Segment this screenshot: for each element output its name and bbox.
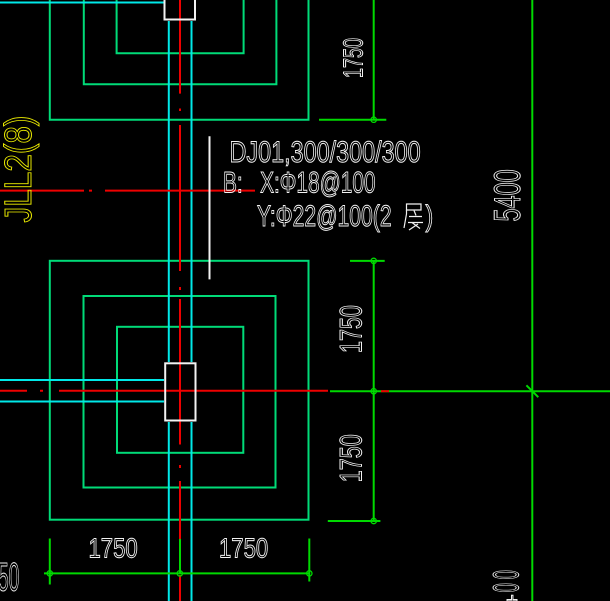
svg-text:): ) xyxy=(426,199,434,233)
svg-text:+: + xyxy=(502,594,524,601)
svg-text:1750: 1750 xyxy=(219,533,268,564)
svg-text:1750: 1750 xyxy=(333,434,368,482)
svg-text:Y:Φ22@100(2: Y:Φ22@100(2 xyxy=(257,201,392,233)
svg-text:5400: 5400 xyxy=(486,169,528,221)
svg-text:1750: 1750 xyxy=(338,38,369,78)
svg-text:50: 50 xyxy=(0,555,19,600)
svg-text:DJ01,300/300/300: DJ01,300/300/300 xyxy=(230,135,421,168)
svg-text:B: X:Φ18@100: B: X:Φ18@100 xyxy=(223,167,376,200)
svg-text:0: 0 xyxy=(485,570,526,579)
svg-text:0: 0 xyxy=(485,583,526,592)
svg-text:JLL2(8): JLL2(8) xyxy=(0,116,40,223)
svg-text:1750: 1750 xyxy=(333,305,368,353)
svg-text:1750: 1750 xyxy=(89,533,138,564)
